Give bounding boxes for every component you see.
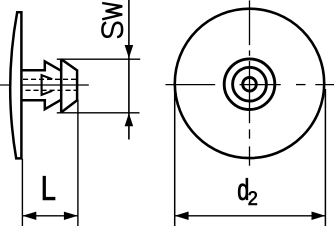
shaft with barb step (top): [22, 61, 62, 70]
L arrow (left): [22, 212, 36, 220]
middle small circle: [233, 67, 267, 101]
vertical centerline (right view): [249, 0, 251, 45]
d2 label (subscript 2): [249, 191, 257, 205]
disc (large washer, edge-on): [10, 12, 21, 158]
d2 arrow (right): [312, 212, 326, 221]
SW extension line (top): [57, 58, 140, 60]
d2 extension line (left): [174, 89, 176, 226]
SW label (letter W, rotated): [102, 3, 122, 19]
horizontal centerline (right view): [166, 84, 216, 86]
outer small circle: [224, 59, 275, 110]
d2 extension line (right): [324, 89, 326, 226]
big circle (disc outline d2): [175, 9, 324, 158]
SW extension line (bottom): [57, 112, 140, 114]
L extension line (right): [77, 100, 79, 227]
d2 label (letter d): [238, 178, 248, 200]
centerline (left view axis): [0, 84, 14, 86]
inner small circle: [243, 77, 257, 91]
L dimension line: [23, 215, 78, 217]
L label: [43, 176, 55, 200]
hidden line (lower): [18, 89, 79, 91]
L arrow (right): [64, 212, 78, 220]
inner wedge (screw tip): [42, 75, 53, 95]
head outline (top slant, right face, bottom slant): [61, 59, 77, 112]
centerline tick: [15, 85, 17, 89]
L extension line (left): [21, 159, 23, 226]
SW label (letter S, rotated): [102, 23, 122, 38]
d2 arrow (left): [175, 212, 189, 221]
head (trapezoid, left face): [60, 59, 63, 112]
SW dimension line: [128, 0, 130, 140]
shaft with barb step (bottom): [22, 100, 62, 110]
d2 dimension line: [175, 215, 326, 217]
SW arrow (bottom, pointing up): [125, 113, 134, 126]
SW arrow (top, pointing down): [125, 45, 134, 58]
hidden line (upper): [23, 78, 78, 80]
